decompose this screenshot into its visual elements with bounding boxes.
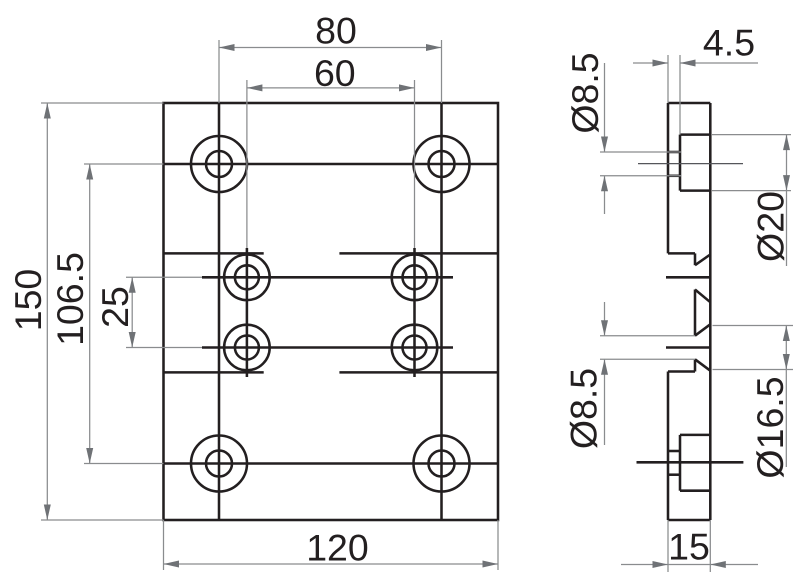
hole top-left counterbore	[191, 136, 247, 192]
hole bottom-left bore	[206, 451, 232, 477]
svg-text:106.5: 106.5	[49, 252, 91, 346]
dimension dia 8.5 bottom extension lines	[600, 335, 695, 337]
side view centerline mid row 1	[666, 276, 711, 279]
dimension 80 line	[219, 47, 442, 49]
side view left face upper segment	[667, 103, 670, 253]
svg-text:80: 80	[315, 10, 357, 52]
wire horizontal line through bottom hole row	[164, 462, 499, 465]
dimension 106.5 extension lines	[84, 163, 164, 165]
plate outline (front view)	[164, 103, 499, 520]
dimension 106.5 line	[89, 164, 91, 464]
side view bottom counterbore lower edge	[680, 489, 710, 492]
dimension 15 leader right	[710, 564, 758, 566]
dimension dia 20 extension lines	[712, 134, 791, 136]
dimension dia 8.5 top line upper	[604, 63, 606, 152]
side view countersink row2 upper edge	[695, 324, 710, 335]
side view top edge	[668, 102, 710, 105]
side view left face lower segment	[667, 372, 670, 521]
dimension dia 8.5 bottom line lower	[604, 359, 606, 445]
svg-text:Ø8.5: Ø8.5	[563, 368, 605, 449]
hole bottom-left counterbore	[191, 436, 247, 492]
wire recess boundary upper left segment	[164, 252, 264, 255]
side view right face	[709, 103, 712, 520]
svg-text:120: 120	[306, 527, 369, 569]
svg-text:Ø8.5: Ø8.5	[564, 52, 606, 133]
side view centerline top hole	[638, 163, 743, 165]
dimension dia 8.5 top line lower	[604, 176, 606, 214]
dimension 4.5 leader right	[680, 62, 758, 64]
centerline middle row 2	[202, 346, 453, 349]
svg-text:60: 60	[314, 52, 356, 94]
dimension 15 leader left	[621, 564, 668, 566]
side view recessed face segment 1	[694, 253, 697, 265]
side view countersink row1 upper edge	[695, 255, 710, 266]
hole top-right counterbore	[414, 136, 470, 192]
hole mid row2 left countersink	[224, 325, 270, 371]
side view top counterbore depth line	[679, 135, 682, 191]
svg-text:15: 15	[668, 526, 710, 568]
side view recessed face segment 2	[694, 290, 697, 336]
centerline middle row 1	[202, 276, 453, 279]
svg-text:25: 25	[94, 286, 136, 328]
dimension dia 20 line	[786, 135, 788, 266]
side view centerline bottom hole	[637, 461, 744, 464]
hole bottom-right counterbore	[414, 436, 470, 492]
side view countersink row2 lower edge	[695, 359, 710, 370]
side view recess step lower	[668, 370, 695, 373]
side view bottom edge	[668, 519, 710, 522]
dimension dia 8.5 bottom line upper	[604, 302, 606, 336]
svg-text:Ø16.5: Ø16.5	[749, 376, 791, 478]
dimension 15 line middle	[668, 564, 710, 566]
dimension 60 line	[247, 87, 415, 89]
centerline middle right column	[413, 248, 416, 377]
hole top-right bore	[429, 151, 455, 177]
hole top-left bore	[206, 151, 232, 177]
dimension 120 line	[164, 563, 499, 565]
side view bottom counterbore depth line	[679, 435, 682, 491]
centerline left hole column	[218, 103, 221, 520]
side view bottom counterbore upper edge	[680, 434, 710, 437]
dimension 80 extension lines	[218, 40, 220, 103]
hole mid row1 left bore	[235, 265, 259, 289]
dimension 150 line	[46, 103, 48, 520]
svg-text:Ø20: Ø20	[750, 191, 792, 262]
dimension 25 extension lines	[126, 276, 202, 278]
wire recess boundary lower right segment	[339, 371, 498, 374]
dimension dia 8.5 top extension lines	[600, 151, 681, 153]
hole mid row2 right bore	[403, 336, 427, 360]
wire horizontal line through top hole row	[164, 163, 499, 166]
dimension 25 line	[131, 277, 133, 347]
side view recess step upper	[668, 252, 695, 255]
hole mid row1 right countersink	[392, 254, 438, 300]
dimension 150 extension lines	[41, 102, 164, 104]
side view top bore upper edge	[668, 151, 680, 154]
side view recessed face segment 3	[694, 359, 697, 371]
svg-text:150: 150	[7, 269, 49, 332]
dimension 120 extension lines	[163, 520, 165, 570]
dimension 4.5 leader left	[633, 62, 668, 64]
side view top counterbore upper edge	[680, 133, 710, 136]
dimension 60 extension lines	[246, 80, 248, 248]
wire recess boundary upper right segment	[339, 252, 498, 255]
hole mid row1 right bore	[403, 265, 427, 289]
wire recess boundary lower left segment	[164, 371, 264, 374]
hole mid row2 left bore	[235, 336, 259, 360]
side view bottom bore lower edge	[668, 473, 680, 476]
centerline right hole column	[440, 103, 443, 520]
dimension 15 extension lines	[667, 520, 669, 572]
dimension 4.5 extension lines	[667, 55, 669, 103]
dimension dia 16.5 extension lines	[713, 325, 794, 327]
side view top bore lower edge	[668, 175, 680, 178]
side view top counterbore lower edge	[680, 189, 710, 192]
side view centerline mid row 2	[666, 346, 711, 349]
hole mid row1 left countersink	[224, 254, 270, 300]
side view countersink row1 lower edge	[695, 290, 710, 303]
svg-text:4.5: 4.5	[703, 22, 755, 64]
dimension dia 16.5 line	[785, 326, 787, 468]
side view bottom bore upper edge	[668, 450, 680, 453]
hole bottom-right bore	[429, 451, 455, 477]
hole mid row2 right countersink	[392, 325, 438, 371]
centerline middle left column	[246, 248, 249, 377]
